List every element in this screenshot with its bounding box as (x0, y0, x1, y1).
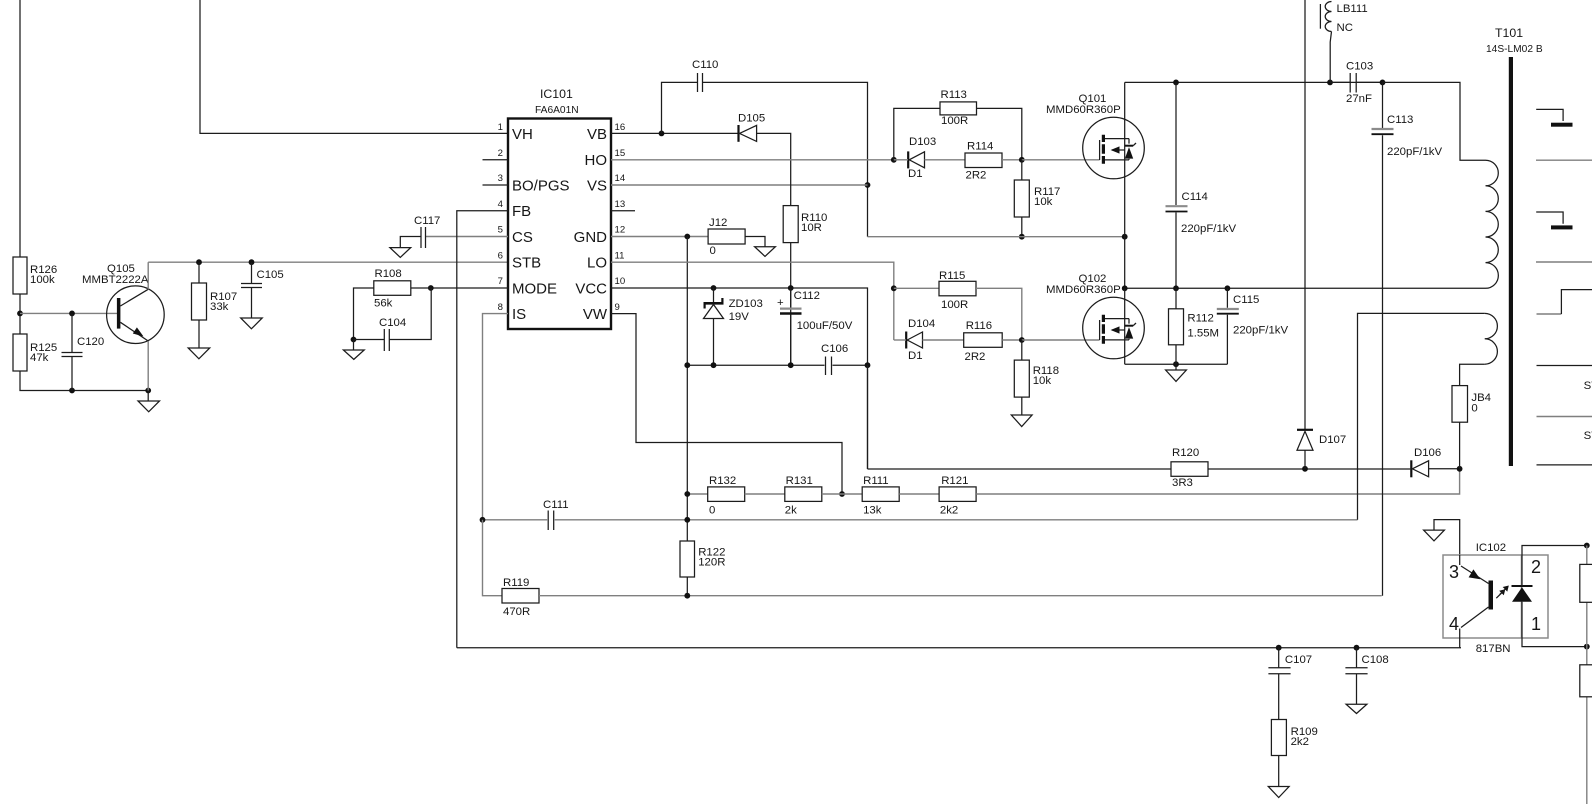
IC op-amp IC101 box (508, 87, 611, 329)
svg-text:C106: C106 (821, 343, 848, 355)
node chain GND vertical (684, 491, 690, 497)
svg-text:9: 9 (615, 302, 620, 313)
node ZD103 bottom (711, 362, 717, 368)
node R117 source row (1019, 234, 1025, 240)
node C106 row right (865, 362, 871, 368)
wire chain row left (687, 493, 707, 495)
svg-text:+: + (777, 297, 784, 309)
node VB C110 junction (659, 131, 665, 137)
svg-text:2: 2 (498, 148, 503, 159)
svg-text:2k: 2k (785, 505, 797, 517)
svg-text:GND: GND (574, 229, 608, 246)
pin 6 STB (498, 251, 542, 272)
wire R122 bottom (686, 577, 688, 596)
svg-text:R121: R121 (941, 475, 968, 487)
wire R115 right down (976, 288, 1022, 340)
node LB111 bottom (1327, 80, 1333, 86)
wire IS corner to R119 (483, 520, 503, 596)
resistor R125 (13, 334, 57, 371)
resistor R115 (939, 270, 976, 311)
svg-text:T101: T101 (1495, 26, 1523, 40)
svg-text:0: 0 (710, 245, 716, 257)
resistor R126 (13, 257, 57, 294)
wire R111 to R121 (899, 493, 939, 495)
capacitor C111 (543, 499, 569, 530)
node C120 bottom (69, 388, 75, 394)
capacitor C108 (1345, 648, 1388, 705)
node base junction (17, 311, 23, 317)
wire CS to C117 (426, 236, 508, 238)
node VW chain junction (839, 491, 845, 497)
zener ZD103 (704, 288, 763, 365)
diode D106 (1411, 447, 1441, 477)
ground below R109 (1268, 756, 1289, 798)
resistor right edge upper (1580, 564, 1592, 602)
svg-text:C114: C114 (1182, 191, 1208, 203)
svg-text:8: 8 (498, 302, 503, 313)
transistor Q101 (1046, 93, 1144, 179)
svg-text:FA6A01N: FA6A01N (535, 105, 579, 116)
ground near IC102 (1424, 520, 1460, 555)
svg-text:LB111: LB111 (1337, 3, 1368, 15)
svg-text:C105: C105 (257, 269, 284, 281)
inductor LB111 (1320, 2, 1367, 83)
ground below R112 (1166, 364, 1187, 381)
svg-text:C107: C107 (1285, 654, 1312, 666)
svg-text:6: 6 (498, 251, 503, 262)
svg-text:47k: 47k (30, 352, 49, 364)
wire R120 row left (868, 468, 1172, 470)
pin 2 stub (483, 148, 509, 160)
svg-text:CS: CS (512, 229, 533, 246)
pin 3 BO/PGS (483, 173, 570, 195)
capacitor C117 (414, 215, 440, 248)
svg-text:2R2: 2R2 (965, 351, 986, 363)
capacitor C104 (354, 288, 432, 351)
wire R113 loop left riser (894, 108, 940, 159)
wire R116 to gate node (1002, 339, 1022, 341)
svg-text:D103: D103 (909, 136, 936, 148)
svg-text:2k2: 2k2 (940, 505, 958, 517)
wire VH pin1 (200, 0, 508, 133)
node R112 bottom (1173, 361, 1179, 367)
ground below R118 (1011, 397, 1032, 427)
svg-text:10k: 10k (1033, 375, 1052, 387)
svg-text:4: 4 (1449, 614, 1459, 634)
wire IC102 pin4 vertical (1459, 629, 1461, 648)
ground left of C117 (390, 248, 411, 258)
svg-text:IS: IS (512, 306, 526, 323)
resistor R119 (502, 577, 539, 618)
resistor R111 (862, 475, 899, 517)
svg-text:0: 0 (1471, 403, 1477, 415)
wire gate node to Q101 gate (1022, 159, 1100, 161)
wire R108 left down to C104 row (354, 288, 374, 340)
wire R125 bottom to emitter row (20, 371, 148, 391)
svg-text:1: 1 (498, 122, 503, 133)
ground below C104 node (343, 340, 364, 360)
capacitor C107 (1268, 648, 1312, 720)
wire Q102 main vertical (1124, 288, 1126, 364)
wire to primary top (1383, 82, 1486, 160)
svg-text:19V: 19V (729, 311, 750, 323)
svg-text:100R: 100R (941, 299, 968, 311)
diode D103 (908, 136, 936, 180)
svg-text:VB: VB (587, 126, 607, 143)
svg-text:MMD60R360P: MMD60R360P (1046, 284, 1121, 296)
svg-text:13k: 13k (863, 505, 882, 517)
wire Q105 collector up (147, 262, 149, 289)
wire VW pin9 path (611, 314, 842, 494)
svg-text:C108: C108 (1362, 654, 1389, 666)
svg-text:R112: R112 (1187, 313, 1213, 325)
transistor Q102 (1046, 273, 1144, 359)
wire STB row (148, 261, 508, 263)
pin 13 stub (611, 199, 635, 211)
svg-text:817BN: 817BN (1476, 643, 1511, 655)
pin 8 IS (498, 302, 527, 323)
wire R131 to R111 (822, 493, 862, 495)
svg-text:0: 0 (709, 505, 715, 517)
wire chain row right to D106 riser (976, 468, 1460, 494)
svg-text:C120: C120 (77, 336, 104, 348)
diode D105 (738, 113, 765, 142)
wire C103 right to C113 node (1356, 81, 1382, 83)
svg-text:11: 11 (615, 251, 625, 262)
wire D106 to JB4 node (1429, 468, 1460, 470)
svg-text:100k: 100k (30, 274, 55, 286)
resistor R109 (1271, 720, 1317, 756)
svg-text:2k2: 2k2 (1291, 736, 1309, 748)
wire D104 to R116 (923, 339, 964, 341)
node C111 row R122 (684, 517, 690, 523)
wire R132 to R131 (745, 493, 785, 495)
resistor R118 (1014, 340, 1059, 397)
svg-text:NC: NC (1337, 22, 1353, 34)
pin 5 CS (498, 225, 533, 247)
node C113 top (1380, 80, 1386, 86)
capacitor C103 (1346, 61, 1373, 106)
node C114 top (1173, 80, 1179, 86)
wire R110 bottom to VCC row (790, 243, 792, 366)
optocoupler IC102 (1443, 542, 1548, 655)
pin 9 VW (583, 302, 620, 323)
wire C103 left (1330, 81, 1350, 83)
node D107 (1302, 466, 1308, 472)
node right edge top (1584, 543, 1590, 549)
wire HO node to D103 (894, 159, 908, 161)
resistor R122 (680, 541, 725, 577)
wire Q102 source row (1125, 363, 1228, 365)
resistor R117 (1014, 160, 1060, 217)
transformer secondary winding (1485, 313, 1498, 364)
svg-text:IC101: IC101 (540, 87, 573, 101)
svg-text:4: 4 (498, 199, 504, 210)
wire LO pin11 (611, 262, 894, 340)
svg-text:BO/PGS: BO/PGS (512, 178, 570, 195)
svg-text:33k: 33k (210, 301, 229, 313)
svg-text:3R3: 3R3 (1172, 477, 1193, 489)
node C112 top (788, 285, 794, 291)
node emitter bottom (145, 388, 151, 394)
svg-text:12: 12 (615, 225, 626, 236)
svg-text:C113: C113 (1387, 114, 1413, 126)
wire FB pin4 down to bottom row (457, 211, 508, 648)
secondary side step winding B (1536, 212, 1572, 229)
svg-text:R113: R113 (941, 89, 967, 101)
node C106 row left (684, 362, 690, 368)
wire x867 lower vertical to R120 row (867, 365, 869, 469)
svg-text:7: 7 (498, 276, 503, 287)
svg-text:VCC: VCC (575, 281, 607, 298)
svg-text:MODE: MODE (512, 281, 557, 298)
wire R113 right down (977, 108, 1022, 159)
svg-text:C110: C110 (692, 59, 718, 71)
node R108 right (428, 285, 434, 291)
node Q102 drain (1122, 285, 1128, 291)
svg-text:220pF/1kV: 220pF/1kV (1233, 325, 1288, 337)
svg-text:C104: C104 (379, 317, 406, 329)
resistor R120 (1171, 447, 1208, 489)
resistor R131 (785, 475, 822, 517)
svg-text:VH: VH (512, 126, 533, 143)
wire Q105 emitter down (147, 341, 149, 391)
wire R120 to D107 (1208, 468, 1410, 470)
wire HO pin15 (611, 159, 894, 161)
pin 10 VCC (575, 276, 625, 298)
svg-text:220pF/1kV: 220pF/1kV (1181, 223, 1236, 235)
wire IS pin8 down (483, 314, 509, 520)
svg-text:J12: J12 (709, 217, 727, 229)
capacitor C115 (1217, 288, 1289, 364)
pin 15 HO (585, 148, 626, 169)
secondary side grey line 4 (1537, 416, 1592, 418)
svg-text:R132: R132 (709, 475, 736, 487)
svg-text:3: 3 (1449, 562, 1459, 582)
capacitor C110 (692, 59, 718, 92)
wire R117 bottom to source row (1021, 217, 1023, 237)
svg-text:ZD103: ZD103 (729, 298, 763, 310)
wire C111 row (483, 519, 1358, 521)
svg-text:IC102: IC102 (1476, 542, 1506, 554)
pin 16 VB (587, 122, 625, 143)
wire Q101 main vertical (1124, 82, 1126, 288)
diode D104 (906, 318, 935, 362)
wire C117 to ground (400, 237, 421, 248)
svg-text:120R: 120R (698, 557, 725, 569)
node gate Q101 (1019, 157, 1025, 163)
svg-text:14S-LM02 B: 14S-LM02 B (1486, 44, 1543, 55)
resistor R114 (965, 141, 1002, 182)
node C105 top (249, 259, 255, 265)
wire J12 to ground (745, 237, 765, 247)
node C104 left (351, 337, 357, 343)
wire GND row to J12 (611, 236, 708, 238)
wire bottom FB row (457, 647, 1461, 649)
pin 14 VS (587, 173, 626, 195)
svg-text:100uF/50V: 100uF/50V (797, 320, 853, 332)
wire VCC pin10 (611, 288, 868, 469)
node ZD103 top (711, 285, 717, 291)
svg-text:D104: D104 (908, 318, 935, 330)
svg-text:MMBT2222A: MMBT2222A (82, 274, 149, 286)
node C111 row left (480, 517, 486, 523)
svg-text:10: 10 (615, 276, 626, 287)
svg-text:D1: D1 (908, 350, 923, 362)
svg-text:R120: R120 (1172, 447, 1199, 459)
node C112 bottom (788, 362, 794, 368)
svg-text:14: 14 (615, 173, 626, 184)
wire secondary bottom to JB4 (1460, 364, 1485, 385)
wire gate node to Q102 gate (1022, 339, 1100, 341)
pin 11 LO (587, 251, 624, 272)
node right edge bottom (1584, 644, 1590, 650)
wire D103 to R114 (925, 159, 966, 161)
secondary side black line 5 (1537, 464, 1592, 466)
svg-text:HO: HO (585, 152, 608, 169)
wire R108 right to node (411, 287, 431, 289)
svg-text:VW: VW (583, 306, 608, 323)
svg-text:R131: R131 (786, 475, 813, 487)
wire C110 right to x867 (703, 82, 868, 236)
svg-text:C115: C115 (1233, 294, 1259, 306)
wire left edge vertical to R126 (19, 0, 21, 257)
svg-text:FB: FB (512, 203, 531, 220)
svg-text:R116: R116 (966, 320, 992, 332)
svg-text:16: 16 (615, 122, 626, 133)
resistor R116 (964, 320, 1003, 363)
node C115 top (1225, 285, 1231, 291)
pin 1 VH (498, 122, 533, 143)
resistor right edge lower (1580, 665, 1592, 697)
capacitor C120 (62, 313, 105, 390)
transformer primary winding (1486, 160, 1499, 288)
svg-text:D106: D106 (1414, 447, 1441, 459)
node GND vertical top (684, 234, 690, 240)
svg-text:10R: 10R (801, 222, 822, 234)
wire secondary top row (1358, 313, 1485, 519)
svg-text:VS: VS (587, 178, 607, 195)
capacitor C114 (1166, 82, 1237, 288)
wire JB4 to D106 node (1459, 422, 1461, 469)
wire R126 to R125 (19, 294, 21, 334)
wire source row (868, 236, 1125, 238)
svg-text:13: 13 (615, 199, 626, 210)
jumper J12 (708, 217, 745, 257)
wire R119 row (539, 595, 1382, 597)
node HO junction (891, 157, 897, 163)
svg-text:ST: ST (1584, 430, 1592, 442)
secondary side grey line 1 (1536, 159, 1592, 161)
node source row end (1122, 234, 1128, 240)
wire R115 row left (894, 287, 939, 289)
capacitor C112 (777, 288, 853, 365)
ground below Q105 (138, 391, 160, 412)
transistor Q105 (82, 263, 164, 344)
resistor R112 (1169, 288, 1220, 364)
capacitor C113 (1372, 82, 1443, 595)
wire MODE row (431, 287, 508, 289)
wire top rail (1125, 81, 1330, 83)
wire VB pin16 (611, 132, 738, 134)
node R107 top (196, 259, 202, 265)
node VS tap (865, 182, 871, 188)
svg-text:R108: R108 (375, 268, 402, 280)
svg-text:R115: R115 (939, 270, 965, 282)
svg-text:C117: C117 (414, 215, 440, 227)
svg-text:15: 15 (615, 148, 626, 159)
node C120 top (69, 311, 75, 317)
wire C106 row (687, 364, 867, 366)
wire top rail to primary top (1330, 81, 1382, 83)
resistor R108 (374, 268, 411, 310)
svg-text:5: 5 (498, 225, 503, 236)
svg-text:3: 3 (498, 173, 503, 184)
svg-text:27nF: 27nF (1346, 93, 1372, 105)
wire primary bottom row (1125, 287, 1486, 289)
node JB4 bottom (1457, 466, 1463, 472)
svg-text:ST: ST (1584, 380, 1592, 392)
node R112 top (1173, 285, 1179, 291)
svg-text:C103: C103 (1346, 61, 1373, 73)
pin 7 MODE (498, 276, 557, 298)
svg-text:C111: C111 (543, 499, 569, 511)
svg-text:D107: D107 (1319, 434, 1346, 446)
transformer T101 core (1486, 26, 1543, 466)
svg-text:D1: D1 (908, 168, 923, 180)
node LO R115 tap (891, 285, 897, 291)
node C107 top (1276, 645, 1282, 651)
wire right edge vertical (1586, 546, 1588, 804)
svg-text:MMD60R360P: MMD60R360P (1046, 104, 1121, 116)
secondary side step C (1537, 290, 1592, 314)
resistor JB4 (1452, 386, 1491, 423)
wire IC102 pin2 riser (1522, 546, 1587, 587)
resistor R121 (939, 475, 976, 517)
svg-text:100R: 100R (941, 115, 968, 127)
svg-text:1.55M: 1.55M (1187, 328, 1219, 340)
wire GND vertical x687 (686, 237, 688, 542)
ground below C108 (1346, 704, 1367, 713)
wire VS pin14 (611, 184, 868, 186)
svg-text:C112: C112 (794, 290, 820, 302)
svg-text:STB: STB (512, 255, 541, 272)
ground right of J12 (755, 247, 776, 257)
svg-text:10k: 10k (1034, 196, 1053, 208)
wire LO corner to D104 (894, 339, 906, 341)
ground below R107 (188, 320, 210, 359)
wire R114 to gate node (1002, 159, 1022, 161)
svg-text:56k: 56k (374, 298, 393, 310)
secondary side grey line 2 (1536, 261, 1592, 263)
secondary side step winding A (1536, 109, 1572, 126)
pin 12 GND (574, 225, 626, 247)
node C108 top (1354, 645, 1360, 651)
capacitor C105 (241, 262, 284, 318)
node gate Q102 (1019, 337, 1025, 343)
svg-text:R111: R111 (863, 475, 889, 487)
wire D105 anode to R110 top (757, 133, 791, 205)
wire base row (20, 312, 117, 314)
wire IC102 pin1 drop (1522, 602, 1587, 647)
capacitor C106 (821, 343, 848, 375)
svg-text:D105: D105 (738, 113, 765, 125)
svg-text:R119: R119 (503, 577, 529, 589)
resistor R132 (708, 475, 745, 517)
secondary side black line 3 (1537, 365, 1592, 367)
svg-text:2: 2 (1531, 557, 1541, 577)
resistor R113 (940, 89, 977, 127)
